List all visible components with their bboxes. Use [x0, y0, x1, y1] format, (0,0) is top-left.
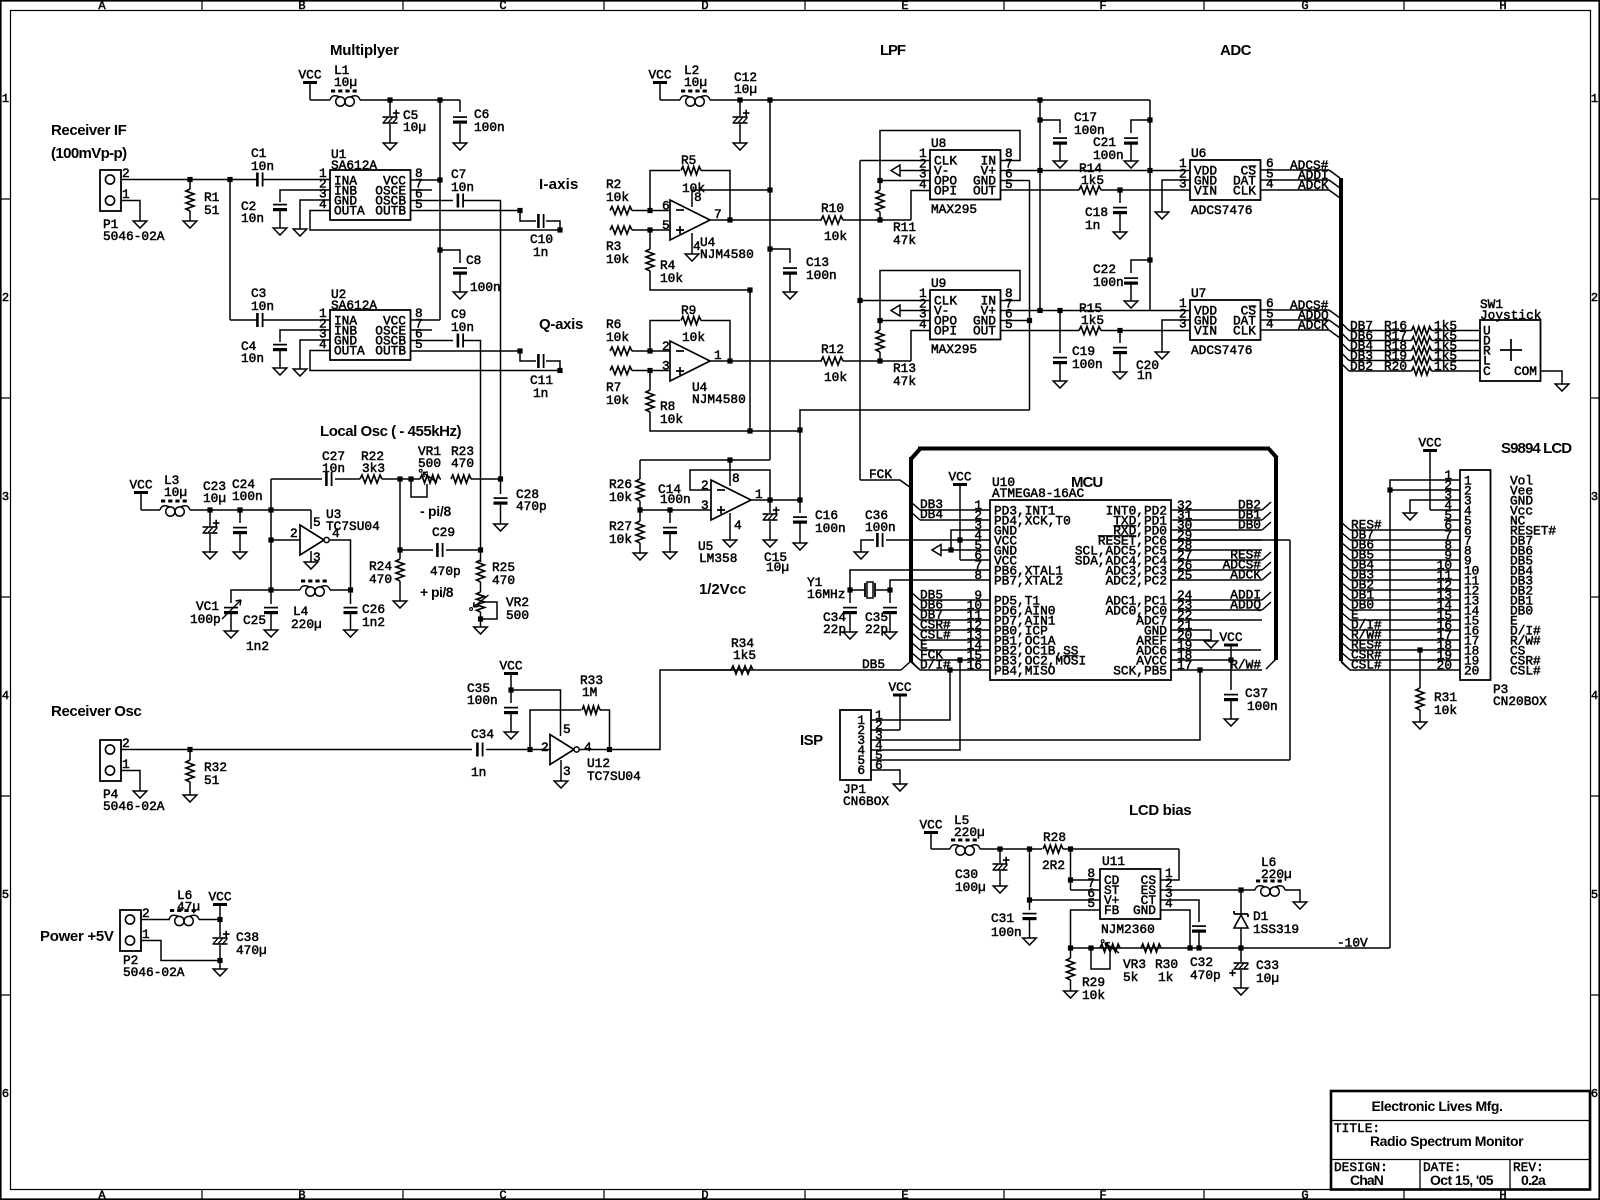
junction C14: [667, 507, 672, 512]
svg-text:470: 470: [451, 456, 474, 471]
stub U1 pin7: [411, 189, 433, 191]
wire R7 to opamp pin3: [632, 370, 670, 372]
wire VCC to L3: [141, 509, 160, 511]
capacitor C28: [500, 479, 502, 494]
resistor R12: [821, 357, 843, 365]
ground C24: [233, 552, 247, 559]
svg-text:G: G: [1301, 0, 1308, 13]
U5 output wire: [751, 499, 800, 501]
svg-text:VCC: VCC: [1418, 436, 1441, 451]
wire 1/2Vcc to U8/U9 GND pins: [1001, 180, 1030, 182]
svg-text:ADCK: ADCK: [1230, 568, 1261, 583]
wire bus to P3 RES# row y=650: [1341, 642, 1350, 650]
ground JP1: [893, 784, 907, 791]
resistor R29: [1070, 948, 1072, 958]
junction FB rail: [1068, 945, 1073, 950]
wire P2.1 return: [141, 941, 220, 961]
svg-text:A: A: [98, 0, 106, 13]
svg-text:H: H: [1499, 0, 1506, 13]
wire RES# to bus: [1262, 552, 1271, 560]
svg-text:PB4,MISO: PB4,MISO: [994, 664, 1056, 679]
junction C15: [767, 497, 772, 502]
capacitor C15 (polarized): [769, 500, 771, 513]
junction to C3 branch: [227, 177, 232, 182]
svg-text:COM: COM: [1514, 364, 1537, 379]
VCC rail wire to ADC section: [710, 99, 1150, 101]
resistor R14 on U8 OUT: [1001, 189, 1080, 191]
svg-text:VCC: VCC: [129, 478, 152, 493]
U7 CLK to ADCK: [1261, 329, 1330, 331]
svg-text:VCC: VCC: [208, 890, 231, 905]
wire U11 pin4 GND to rail: [1161, 910, 1191, 948]
junction SCK ISP: [1197, 667, 1202, 672]
ground U4a pin4: [685, 254, 699, 261]
U10 row 20 stub: [1171, 639, 1211, 641]
wire VCC rail down to U1 U2 pin8: [439, 100, 441, 320]
resistor R22: [360, 475, 382, 483]
junction R5 output: [727, 217, 732, 222]
junction R4 bias: [747, 287, 752, 292]
junction C11 top: [517, 348, 522, 353]
svg-text:3: 3: [662, 359, 670, 374]
wire ADDI to bus: [1262, 592, 1271, 600]
ground C15: [763, 540, 777, 547]
svg-text:16MHz: 16MHz: [807, 587, 845, 602]
resistor R33 1M: [530, 710, 581, 750]
wire U9 IN loop to OPO: [880, 271, 1020, 321]
wire U10 right row y=540 stub: [1171, 539, 1262, 541]
potentiometer VR1 500: [420, 475, 440, 483]
svg-text:0.2a: 0.2a: [1521, 1172, 1546, 1188]
wire U10 right row y=550 stub: [1171, 549, 1262, 551]
wire L1 to C5 C6: [360, 99, 460, 101]
ground C21: [1124, 161, 1138, 168]
wire bus to P3 DB2 row y=590: [1341, 582, 1350, 590]
svg-text:3: 3: [563, 764, 571, 779]
ground U3: [304, 562, 318, 569]
wire R15 to U7 VIN: [1101, 330, 1190, 332]
svg-text:U6: U6: [1191, 146, 1206, 161]
svg-text:6: 6: [662, 199, 670, 214]
FCK clock line from LPF to MCU: [859, 161, 861, 481]
wire U11 pin6 V+: [1030, 899, 1101, 901]
inductor L3: [161, 500, 189, 503]
svg-text:R5: R5: [681, 153, 696, 168]
svg-text:10k: 10k: [606, 190, 629, 205]
junction C10 bottom: [557, 227, 562, 232]
svg-text:1n: 1n: [1085, 218, 1100, 233]
connector P3 CN20BOX: [1460, 470, 1491, 680]
svg-text:C29: C29: [432, 525, 455, 540]
feedback vertical x=271: [270, 479, 272, 590]
svg-text:FCK: FCK: [869, 467, 892, 482]
RESET wire down to ISP pin5: [1289, 540, 1291, 760]
svg-text:U9: U9: [931, 276, 946, 291]
junction R8 top: [647, 368, 652, 373]
junction C23: [207, 507, 212, 512]
capacitor C31: [1023, 913, 1037, 915]
svg-text:ISP: ISP: [800, 732, 823, 749]
wire U10 right row y=530 net DB0: [1171, 529, 1262, 531]
svg-text:CSL#: CSL#: [1351, 658, 1382, 673]
capacitor C32: [1192, 925, 1206, 927]
capacitor C25: [270, 590, 272, 604]
capacitor C4: [273, 344, 287, 346]
svg-text:CSL#: CSL#: [1510, 664, 1541, 679]
junction U11 pin8: [1068, 877, 1073, 882]
svg-text:500: 500: [418, 456, 441, 471]
svg-text:3: 3: [701, 498, 709, 513]
resistor R23: [440, 478, 441, 480]
svg-text:100n: 100n: [660, 492, 691, 507]
svg-text:ADCK: ADCK: [1298, 178, 1329, 193]
svg-text:5: 5: [415, 337, 423, 352]
ground C35 22p: [883, 632, 897, 639]
svg-text:CN6BOX: CN6BOX: [843, 794, 889, 809]
junction R4 top: [647, 227, 652, 232]
junction C21: [1147, 117, 1152, 122]
resistor R8: [649, 371, 651, 391]
wire L5 to R28: [980, 848, 1042, 850]
diode D1 1SS319 (zener): [1240, 890, 1242, 914]
wire U11 pin5 FB: [1071, 910, 1101, 948]
resistor R17 1k5: [1412, 337, 1432, 345]
junction C16: [797, 497, 802, 502]
capacitor C30 (polarized): [999, 849, 1001, 863]
wire C31 to V+ row: [1029, 849, 1031, 910]
ground L6: [1293, 902, 1307, 909]
ground P4: [133, 791, 147, 798]
svg-text:Joystick: Joystick: [1480, 308, 1542, 323]
svg-text:10k: 10k: [609, 532, 632, 547]
U7 CS overline: [1249, 305, 1257, 307]
ground U7: [1155, 352, 1169, 359]
wire to C3: [230, 319, 257, 321]
wire ADCK to bus: [1329, 190, 1340, 198]
wire P4.1 to ground: [121, 771, 140, 792]
svg-text:1n2: 1n2: [362, 615, 385, 630]
wire bus to P3 DB6 row y=550: [1341, 542, 1350, 550]
capacitor C33 (polarized): [1240, 948, 1242, 962]
svg-text:F: F: [1099, 1189, 1106, 1200]
svg-text:1n: 1n: [533, 386, 548, 401]
svg-text:Oct 15, '05: Oct 15, '05: [1430, 1172, 1494, 1188]
ground C20: [1113, 372, 1127, 379]
wire VCC to L1: [310, 99, 330, 101]
resistor R6: [610, 347, 632, 355]
wire VCC to L5: [931, 848, 950, 850]
wire U4a pin8 to VCC: [692, 190, 770, 207]
wire ADDQ to bus: [1262, 602, 1271, 610]
feedback resistor R5: [650, 171, 680, 211]
connector P2 5046-02A: [120, 910, 141, 951]
ground C16: [793, 543, 807, 550]
wire JP1 pin1 to D/I# row: [871, 670, 950, 720]
capacitor C10: [520, 211, 536, 222]
ground U10 pin21: [1204, 641, 1218, 648]
svg-text:+ pi/8: + pi/8: [420, 584, 454, 600]
wire bus to D/I# (MCU left): [911, 662, 920, 670]
svg-text:OUT: OUT: [973, 324, 996, 339]
svg-text:47k: 47k: [893, 233, 916, 248]
wire C27 line: [271, 478, 322, 480]
ground C19: [1053, 381, 1067, 388]
wire VCC feed to R26: [640, 459, 770, 461]
IC U1 SA612A: [330, 170, 411, 220]
svg-text:4: 4: [734, 518, 742, 533]
svg-text:Multiplyer: Multiplyer: [330, 42, 399, 59]
svg-text:1n2: 1n2: [246, 639, 269, 654]
svg-text:8: 8: [732, 471, 740, 486]
wire bus to DB3 (U10 pin1): [911, 502, 920, 510]
svg-text:100n: 100n: [232, 489, 263, 504]
VR1 wiper link: [411, 480, 427, 497]
svg-text:MAX295: MAX295: [931, 202, 977, 217]
svg-text:20: 20: [1464, 664, 1479, 679]
svg-text:1: 1: [1591, 92, 1598, 106]
svg-text:100n: 100n: [865, 520, 896, 535]
ground R1: [183, 221, 197, 228]
svg-text:I-axis: I-axis: [539, 176, 579, 193]
svg-text:VCC: VCC: [919, 818, 942, 833]
wire U10 right row y=580 net ADCK: [1171, 579, 1262, 581]
junction Vee: [1387, 487, 1392, 492]
wire U2 pin6 OSCB to C9: [411, 340, 454, 342]
svg-text:VCC: VCC: [888, 680, 911, 695]
capacitor C5 (polarized): [389, 100, 391, 116]
svg-text:10µ: 10µ: [403, 120, 426, 135]
wire U10 right row y=620 stub: [1171, 619, 1262, 621]
svg-text:-10V: -10V: [1337, 936, 1368, 951]
svg-text:Local Osc ( - 455kHz): Local Osc ( - 455kHz): [320, 423, 461, 440]
U8 pin2 V- arrow: [891, 165, 900, 176]
svg-text:5: 5: [1087, 896, 1095, 911]
wire R12 to U9: [843, 360, 911, 362]
svg-text:NJM4580: NJM4580: [700, 247, 754, 262]
wire U8 V+ to VDD rail: [1001, 170, 1191, 172]
svg-text:2: 2: [541, 740, 549, 755]
SW1 cross symbol: [1500, 339, 1522, 361]
junction C11 bottom: [557, 368, 562, 373]
svg-text:1: 1: [2, 92, 9, 106]
svg-text:100n: 100n: [806, 268, 837, 283]
wire bus to DB6 row: [1341, 333, 1349, 341]
LCD data bus thick outline around MCU: [911, 449, 920, 459]
ground C36: [854, 552, 868, 559]
svg-text:VCC: VCC: [1219, 630, 1242, 645]
svg-text:500: 500: [506, 608, 529, 623]
svg-text:OUTB: OUTB: [375, 204, 406, 219]
potentiometer VR2 500: [477, 592, 485, 612]
wire R18 to SW1: [1432, 350, 1481, 352]
wire U10 pin29 RESET to ISP: [1171, 539, 1290, 541]
capacitor C13: [770, 249, 790, 263]
resistor R18 1k5: [1412, 347, 1432, 355]
junction XTAL2: [887, 587, 892, 592]
inductor L5: [951, 839, 979, 842]
junction ISP pin4 FCK: [957, 657, 962, 662]
junction VR3 wiper: [1088, 945, 1093, 950]
svg-text:470p: 470p: [1190, 968, 1221, 983]
svg-text:D/I#: D/I#: [920, 658, 951, 673]
arrow GND net: [932, 545, 941, 556]
junction U9 OPO R13: [877, 318, 882, 323]
svg-text:10n: 10n: [451, 180, 474, 195]
svg-text:5: 5: [662, 218, 670, 233]
svg-text:Electronic Lives Mfg.: Electronic Lives Mfg.: [1371, 1098, 1502, 1114]
wire U10 pin21 GND: [1171, 630, 1211, 641]
svg-text:C25: C25: [243, 613, 266, 628]
svg-text:10k: 10k: [1434, 703, 1457, 718]
wire R20 to SW1: [1432, 370, 1481, 372]
junction C19: [1057, 308, 1062, 313]
svg-text:E: E: [901, 1189, 908, 1200]
resistor R31: [1419, 650, 1421, 688]
wire bus to P3 CSL# row y=670: [1341, 662, 1350, 670]
svg-text:2: 2: [290, 526, 298, 541]
svg-text:U7: U7: [1191, 286, 1206, 301]
resistor R3: [610, 226, 632, 234]
wire bus to P3 R/W# row y=640: [1341, 632, 1350, 640]
IC U9 MAX295: [930, 290, 1001, 340]
U10 RXD overline: [1113, 525, 1136, 527]
resistor R25: [480, 550, 482, 562]
svg-text:E: E: [901, 0, 908, 13]
svg-text:470p: 470p: [430, 564, 461, 579]
svg-text:Power +5V: Power +5V: [40, 928, 114, 945]
svg-text:ADCS7476: ADCS7476: [1191, 343, 1252, 358]
junction bias wire: [797, 427, 802, 432]
svg-text:PB7,XTAL2: PB7,XTAL2: [994, 574, 1063, 589]
junction C6 / U1 rail: [437, 97, 442, 102]
junction C10 top: [517, 208, 522, 213]
wire VCC to U12 pin5: [511, 690, 561, 736]
op-amp U5 LM358: [711, 480, 751, 520]
VDD rail down to U7: [1039, 171, 1041, 311]
svg-text:22p: 22p: [865, 622, 888, 637]
wire R23 to C28: [471, 478, 501, 480]
svg-text:10k: 10k: [824, 229, 847, 244]
svg-text:R/W#: R/W#: [1230, 658, 1261, 673]
junction XTAL1: [847, 587, 852, 592]
capacitor C26: [350, 590, 352, 604]
svg-text:220µ: 220µ: [954, 825, 985, 840]
svg-text:(100mVp-p): (100mVp-p): [51, 145, 127, 162]
ground C2: [273, 228, 287, 235]
svg-text:ATMEGA8-16AC: ATMEGA8-16AC: [992, 486, 1084, 501]
junction C13: [767, 246, 772, 251]
wire bus to P3 DB1 row y=600: [1341, 592, 1350, 600]
svg-text:ChaN: ChaN: [1350, 1172, 1384, 1188]
capacitor C9: [457, 334, 460, 348]
wire U10 pin8 XTAL2: [890, 580, 990, 590]
ground R29: [1064, 991, 1078, 998]
svg-text:LPF: LPF: [880, 42, 906, 59]
capacitor C2: [273, 204, 287, 206]
wire R28 to U11 CS pin1: [1161, 849, 1180, 880]
svg-text:100n: 100n: [474, 120, 505, 135]
ground U1 pin3: [293, 229, 307, 236]
wire bus to DB5 (MCU left): [911, 592, 920, 600]
wire bus to P3 DB4 row y=570: [1341, 562, 1350, 570]
svg-text:100n: 100n: [815, 521, 846, 536]
feedback resistor R9: [650, 321, 680, 352]
op-amp U4 (I-axis half): [670, 200, 710, 240]
svg-text:DB4: DB4: [920, 507, 943, 522]
VR2 wiper link: [481, 602, 498, 619]
junction bias rail R8: [747, 428, 752, 433]
wire P2.2 to L6: [141, 919, 170, 921]
svg-text:100n: 100n: [1093, 275, 1124, 290]
wire C3 to U2 pin1: [263, 319, 330, 321]
ground C8: [453, 292, 467, 299]
svg-text:R9: R9: [681, 303, 696, 318]
resistor R28: [1043, 845, 1063, 853]
svg-text:10k: 10k: [682, 181, 705, 196]
svg-text:3: 3: [2, 490, 9, 504]
svg-text:51: 51: [204, 773, 220, 788]
wire R3 to opamp pin5: [632, 229, 670, 231]
svg-text:1M: 1M: [582, 685, 597, 700]
capacitor C16: [799, 500, 801, 513]
svg-text:3: 3: [1179, 177, 1187, 192]
U6 CLK to ADCK: [1261, 189, 1330, 191]
wire bus to DB4 row: [1341, 343, 1349, 351]
junction VCC out: [217, 917, 222, 922]
ground C28: [494, 524, 508, 531]
junction R13 bottom: [877, 358, 882, 363]
junction C28 / -pi/8 out: [498, 476, 503, 481]
svg-text:10µ: 10µ: [334, 75, 357, 90]
resistor R4: [649, 230, 651, 249]
wire ADCKQ to bus: [1329, 330, 1340, 338]
svg-text:1n: 1n: [533, 245, 548, 260]
ground C12: [733, 143, 747, 150]
wire U9 pin4 OPI: [911, 331, 930, 362]
ground C26: [344, 630, 358, 637]
wire bus to DB6 (MCU left): [911, 602, 920, 610]
resistor R2: [610, 207, 632, 215]
wire bus to E (MCU left): [911, 642, 920, 650]
junction U3 pin2: [268, 537, 273, 542]
wire ADCS# to bus: [1262, 562, 1271, 570]
svg-text:Receiver Osc: Receiver Osc: [51, 703, 141, 720]
svg-text:VIN: VIN: [1194, 324, 1217, 339]
svg-text:10k: 10k: [660, 271, 683, 286]
svg-text:G: G: [1301, 1189, 1308, 1200]
resistor R32: [189, 750, 191, 761]
resistor R7: [610, 367, 632, 375]
connector P1 5046-02A: [100, 170, 121, 211]
U9 pin2 V- arrow: [891, 305, 900, 316]
capacitor C37: [1230, 660, 1232, 690]
wire U10 right row y=560 net RES#: [1171, 559, 1262, 561]
VCC feed wire down to opamps: [769, 100, 771, 460]
svg-text:3: 3: [1179, 317, 1187, 332]
svg-text:DB5: DB5: [862, 657, 885, 672]
wire R16 to SW1: [1432, 330, 1481, 332]
wire U6 pin2 GND: [1162, 180, 1190, 212]
svg-text:VCC: VCC: [948, 470, 971, 485]
wire bus to DB7 row: [1341, 323, 1349, 331]
svg-text:CLK: CLK: [1233, 184, 1256, 199]
wire C1 to U1 pin1: [263, 179, 330, 181]
ground C33: [1234, 988, 1248, 995]
IC U2 SA612A: [330, 310, 411, 360]
ground C37: [1224, 719, 1238, 726]
ground C31: [1023, 938, 1037, 945]
resistor R26: [639, 460, 641, 479]
